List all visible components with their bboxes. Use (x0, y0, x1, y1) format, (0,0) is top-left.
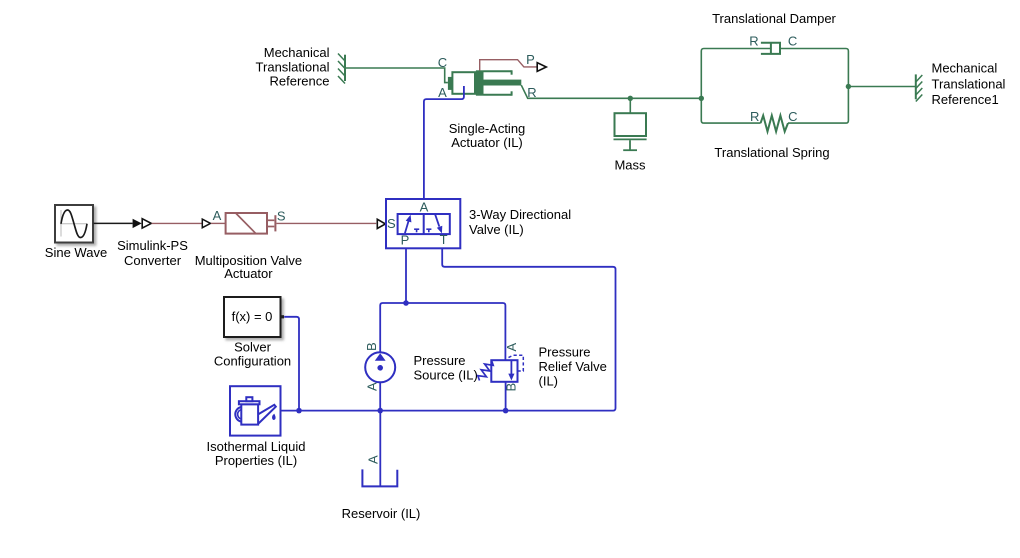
svg-text:C: C (788, 109, 797, 124)
svg-text:Actuator: Actuator (224, 266, 273, 281)
svg-text:Actuator (IL): Actuator (IL) (451, 135, 523, 150)
wire pressure source to bottom bus (379, 382, 381, 410)
wire junction to reference1 (848, 86, 915, 88)
svg-text:Translational Damper: Translational Damper (712, 11, 836, 26)
svg-text:Valve (IL): Valve (IL) (469, 222, 524, 237)
svg-text:Reference: Reference (270, 74, 330, 89)
block Sine Wave (55, 205, 93, 243)
svg-text:A: A (365, 382, 380, 391)
svg-text:Mechanical: Mechanical (264, 45, 330, 60)
arrow into port A of valve actuator (202, 219, 210, 228)
block Solver Configuration (224, 297, 284, 337)
svg-text:3-Way Directional: 3-Way Directional (469, 207, 571, 222)
block Single-Acting Actuator (IL) (448, 70, 521, 95)
svg-text:Translational: Translational (256, 59, 330, 74)
wire actuator R to mass junction (521, 85, 701, 98)
wire sine wave to converter (94, 222, 133, 224)
svg-text:Translational Spring: Translational Spring (714, 145, 829, 160)
arrow into port S of directional valve (377, 219, 385, 228)
svg-text:Translational: Translational (932, 76, 1006, 91)
wire damper to right vertical (781, 49, 848, 87)
wire loop bottom branch (701, 98, 760, 123)
svg-text:R: R (749, 34, 758, 49)
wire arrow to actuator block (211, 222, 226, 224)
svg-text:C: C (788, 34, 797, 49)
valve U3 Pressure Relief Valve (IL) (478, 355, 524, 382)
node junction on top bus (403, 300, 409, 306)
source U2 Pressure Source (IL) (365, 352, 395, 382)
svg-text:P: P (526, 52, 535, 67)
block Mass (614, 113, 647, 150)
wire valve actuator S to directional valve (276, 222, 376, 224)
svg-text:Reservoir (IL): Reservoir (IL) (342, 506, 421, 521)
wire relief valve to bottom bus (505, 382, 507, 411)
wire reference to actuator port C (345, 68, 448, 83)
arrow at P output (537, 63, 546, 72)
spring R2 (Translational Spring) (761, 116, 788, 132)
node junction bottom bus at relief valve (503, 408, 509, 414)
svg-text:A: A (213, 208, 222, 223)
block Isothermal Liquid Properties (IL) (230, 386, 281, 435)
svg-text:Mechanical: Mechanical (932, 61, 998, 76)
svg-text:Simulink-PS: Simulink-PS (117, 238, 188, 253)
svg-text:Isothermal Liquid: Isothermal Liquid (207, 439, 306, 454)
wire junction to mass (629, 98, 631, 113)
node junction right of loop (846, 84, 851, 89)
svg-text:A: A (504, 343, 519, 352)
svg-text:Mass: Mass (614, 158, 646, 173)
svg-text:R: R (750, 109, 759, 124)
wire top bus to pressure source and relief valve (380, 303, 505, 360)
svg-text:Solver: Solver (234, 340, 272, 355)
converter U1 Simulink-PS Converter (133, 219, 152, 228)
svg-text:P: P (401, 232, 410, 247)
wire reservoir (379, 411, 381, 487)
svg-text:B: B (364, 342, 379, 351)
block 3-Way Directional Valve (IL) (386, 199, 460, 248)
svg-text:Relief Valve: Relief Valve (539, 359, 607, 374)
node junction left of spring-damper loop (699, 96, 704, 101)
svg-text:A: A (366, 455, 381, 464)
svg-text:Source (IL): Source (IL) (414, 367, 478, 382)
svg-text:Pressure: Pressure (539, 345, 591, 360)
svg-text:Reference1: Reference1 (932, 92, 999, 107)
wire actuator A to valve A (424, 86, 464, 199)
svg-text:f(x) = 0: f(x) = 0 (232, 309, 273, 324)
node mechanical reference1 (right) (916, 74, 923, 101)
svg-text:(IL): (IL) (539, 374, 559, 389)
wire actuator P to PS arrow (480, 60, 537, 71)
node junction bottom bus at source (377, 408, 383, 414)
block Multiposition Valve Actuator (226, 213, 276, 234)
svg-text:Properties (IL): Properties (IL) (215, 453, 297, 468)
svg-text:A: A (438, 85, 447, 100)
wire solver to bottom bus (284, 317, 299, 411)
wire valve P to top bus junction (405, 248, 407, 303)
wire loop top branch (701, 49, 770, 99)
svg-text:S: S (387, 216, 396, 231)
svg-text:Configuration: Configuration (214, 354, 291, 369)
wire PS converter to valve actuator (152, 222, 202, 224)
svg-text:Sine Wave: Sine Wave (45, 245, 107, 260)
svg-text:T: T (440, 232, 448, 247)
svg-text:S: S (277, 209, 286, 224)
svg-text:Pressure: Pressure (414, 353, 466, 368)
node junction bottom bus at properties (296, 408, 302, 414)
svg-text:Converter: Converter (124, 253, 182, 268)
wire spring to right vertical (788, 87, 848, 124)
damper R1 (Translational Damper) (761, 43, 780, 54)
wire valve T to return line (281, 248, 616, 410)
node mechanical reference (left) (338, 54, 345, 84)
svg-text:C: C (438, 55, 447, 70)
svg-text:A: A (420, 199, 429, 214)
block Reservoir (IL) (362, 469, 397, 486)
node junction at mass (628, 96, 633, 101)
svg-text:Single-Acting: Single-Acting (449, 121, 526, 136)
